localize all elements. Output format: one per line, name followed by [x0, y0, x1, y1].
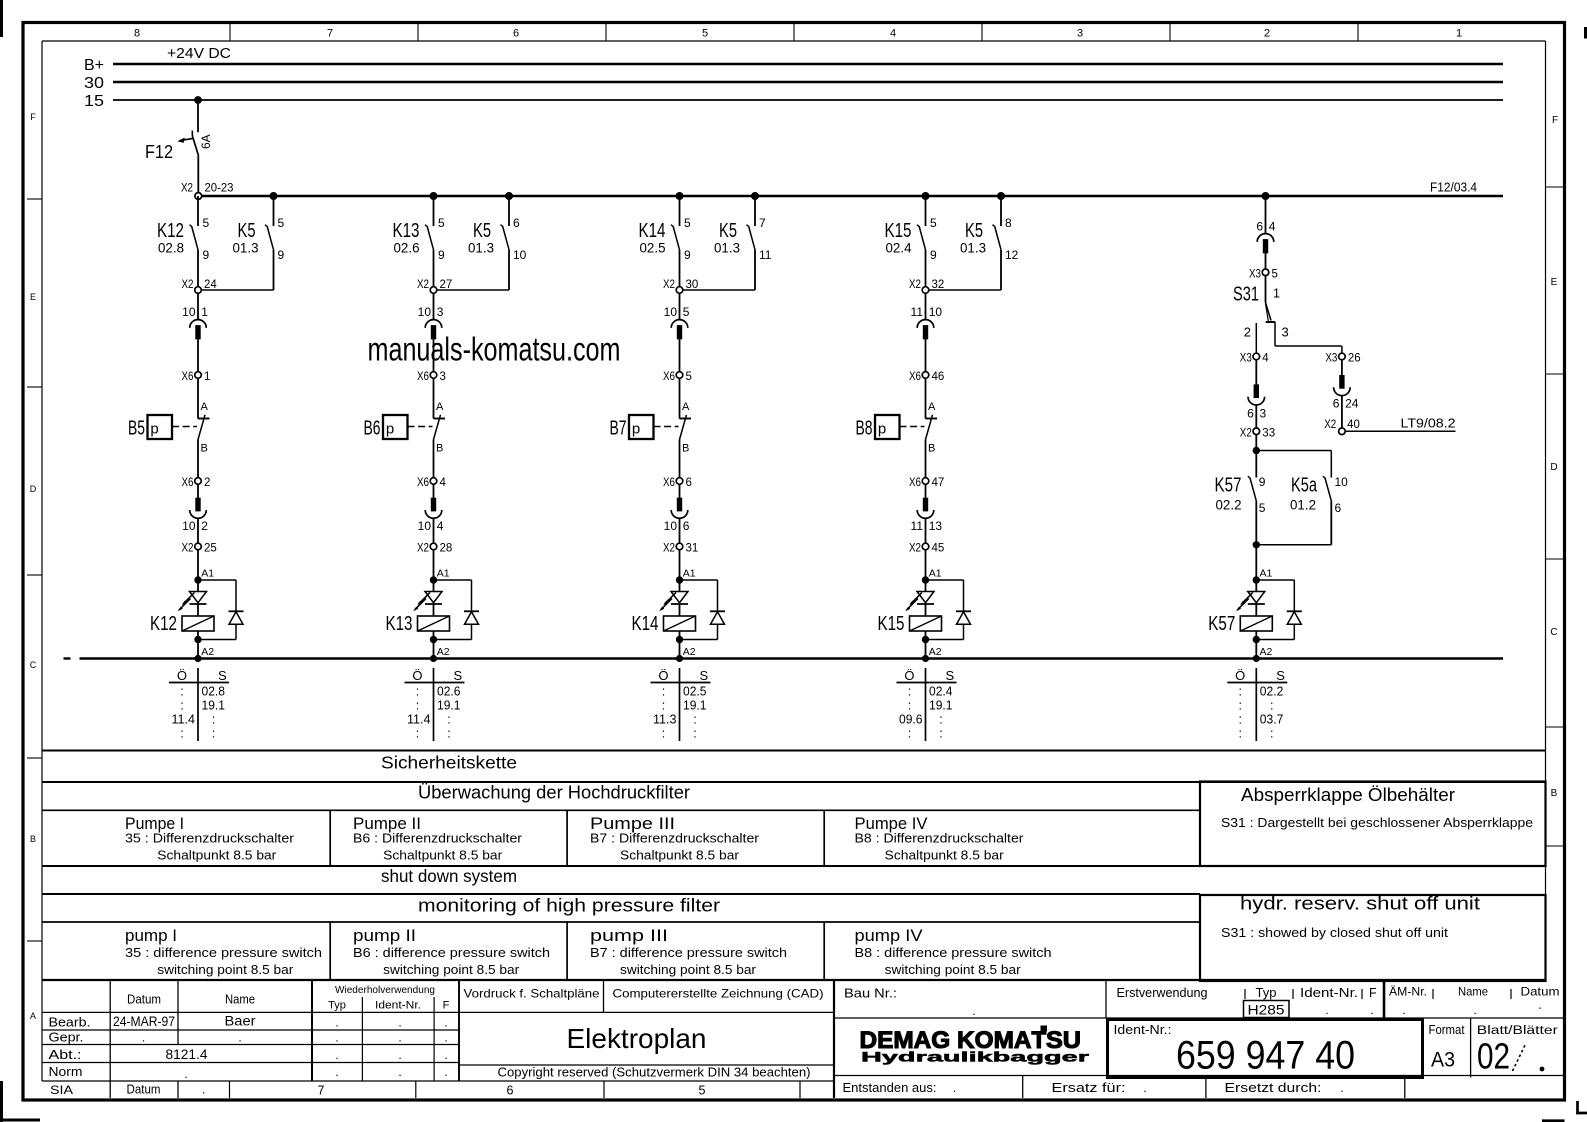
- svg-text:9: 9: [278, 248, 285, 262]
- svg-text:B7 : difference pressure switc: B7 : difference pressure switch: [590, 946, 787, 960]
- row Norm: [49, 1064, 448, 1081]
- svg-text:A: A: [201, 401, 209, 413]
- wire X3:5 to S31: [1265, 275, 1267, 302]
- freewheel diode K57: [1256, 580, 1302, 640]
- connector 10/4: [418, 498, 444, 533]
- svg-text:Bearb.: Bearb.: [49, 1015, 91, 1030]
- svg-text:S: S: [700, 668, 709, 683]
- svg-text:monitoring of high pressure fi: monitoring of high pressure filter: [418, 896, 720, 916]
- svg-text:24: 24: [204, 279, 217, 291]
- svg-text:3: 3: [440, 371, 446, 383]
- title block column line: [1470, 1018, 1472, 1078]
- svg-text:K13: K13: [386, 613, 413, 635]
- contact K5 (7-11): [714, 196, 772, 290]
- wire connector to X6: [197, 339, 199, 372]
- wire X6 to pressure switch: [197, 378, 199, 419]
- terminal X2:45: [909, 543, 944, 555]
- left margin row letters: [30, 112, 37, 1021]
- title block column line: [1022, 1076, 1024, 1099]
- svg-text:6: 6: [1247, 407, 1254, 421]
- terminal X6:2: [182, 477, 211, 489]
- svg-text:8: 8: [134, 28, 140, 40]
- svg-text:C: C: [1550, 627, 1557, 638]
- Wiederholverwendung sub-columns: [362, 997, 434, 1081]
- pressure switch B8: [856, 401, 938, 455]
- wire X6 to connector: [197, 484, 199, 498]
- svg-text:10: 10: [513, 248, 527, 262]
- svg-text:35 : Differenzdruckschalter: 35 : Differenzdruckschalter: [125, 832, 294, 846]
- top margin column numbers: [134, 28, 1462, 40]
- svg-text:ÄM-Nr.: ÄM-Nr.: [1389, 987, 1427, 999]
- wire connector to X6: [925, 339, 927, 372]
- svg-text:switching point 8.5 bar: switching point 8.5 bar: [620, 963, 756, 977]
- svg-text:02.8: 02.8: [202, 685, 226, 699]
- svg-text:27: 27: [440, 279, 453, 291]
- svg-text:02.8: 02.8: [158, 241, 184, 256]
- svg-text:K13: K13: [393, 220, 420, 242]
- svg-text:pump II: pump II: [353, 927, 416, 945]
- svg-text:02.6: 02.6: [394, 241, 420, 256]
- LED indicator K57: [1236, 592, 1265, 612]
- svg-text:K14: K14: [639, 220, 666, 242]
- pressure switch B7: [610, 401, 692, 455]
- svg-text:2: 2: [201, 519, 208, 533]
- svg-text:A2: A2: [201, 646, 214, 658]
- svg-text:Baer: Baer: [225, 1014, 257, 1029]
- svg-text:LT9/08.2: LT9/08.2: [1401, 416, 1456, 430]
- svg-text:01.3: 01.3: [468, 241, 494, 256]
- svg-text:.: .: [444, 1016, 447, 1030]
- wire X2 to A1: [197, 549, 199, 580]
- bus junction (K5 branch 1): [270, 192, 278, 200]
- title block row line: [42, 1062, 459, 1064]
- terminal X2:33: [1240, 427, 1275, 439]
- svg-text:1: 1: [1273, 287, 1280, 301]
- rail 30: [113, 81, 1503, 84]
- svg-text:B7: B7: [610, 418, 627, 440]
- SIA strip dividers: [230, 1081, 801, 1098]
- svg-text:02.5: 02.5: [683, 685, 707, 699]
- corner crop mark bottom-left: [0, 1081, 40, 1122]
- cell Bau Nr.: [844, 987, 976, 1019]
- svg-text:.: .: [398, 1031, 401, 1045]
- svg-text:4: 4: [440, 477, 447, 489]
- svg-text:10: 10: [418, 305, 432, 319]
- band line: [42, 781, 1546, 783]
- svg-text:Datum: Datum: [1521, 985, 1560, 999]
- wire pressure switch to X6: [679, 440, 681, 479]
- svg-text::: :: [662, 699, 665, 713]
- svg-text:Wiederholverwendung: Wiederholverwendung: [335, 984, 435, 996]
- svg-text::: :: [908, 727, 911, 741]
- svg-text:24: 24: [1345, 397, 1359, 411]
- svg-text:31: 31: [686, 543, 699, 555]
- svg-text:F: F: [443, 1000, 450, 1012]
- svg-text:B8: B8: [856, 418, 873, 440]
- freewheel diode K13: [434, 580, 480, 640]
- svg-text:4: 4: [1262, 353, 1269, 365]
- svg-text:p: p: [150, 421, 158, 438]
- svg-text:5: 5: [683, 305, 690, 319]
- svg-text:K12: K12: [150, 613, 177, 635]
- svg-text:.: .: [335, 1065, 338, 1079]
- svg-text:Schaltpunkt 8.5 bar: Schaltpunkt 8.5 bar: [157, 849, 276, 863]
- wire X2 to A1: [925, 549, 927, 580]
- svg-text:40: 40: [1347, 419, 1360, 431]
- panel Absperrklappe Oelbehaelter: [1200, 782, 1546, 867]
- junction A2 K14: [676, 646, 696, 662]
- pump cell dividers (English): [330, 922, 824, 980]
- junction rail15/F12: [194, 96, 202, 104]
- svg-text:15: 15: [84, 93, 104, 110]
- svg-text:10: 10: [929, 305, 943, 319]
- svg-text:A1: A1: [683, 568, 696, 580]
- svg-text::: :: [447, 713, 450, 727]
- terminal X6:1: [182, 371, 211, 383]
- svg-text:6: 6: [513, 216, 520, 230]
- svg-text:S31: S31: [1233, 284, 1259, 306]
- svg-text:S: S: [946, 668, 955, 683]
- svg-text:B: B: [436, 443, 443, 455]
- svg-text:28: 28: [440, 543, 453, 555]
- svg-text:S: S: [1276, 668, 1285, 683]
- svg-text:2: 2: [1264, 28, 1270, 40]
- svg-text:pump IV: pump IV: [855, 927, 923, 945]
- title block column line: [458, 980, 460, 1081]
- svg-text:5: 5: [278, 216, 285, 230]
- svg-text:11: 11: [911, 305, 924, 319]
- bus junction (K5 branch 2): [505, 192, 513, 200]
- row Bearb.: [49, 1014, 448, 1030]
- terminal X2:27: [417, 279, 452, 293]
- svg-text:H285: H285: [1248, 1003, 1285, 1018]
- SIA strip labels: [50, 1083, 706, 1098]
- svg-text:Ersetzt durch:: Ersetzt durch:: [1225, 1080, 1322, 1095]
- title block right section divider: [833, 980, 835, 1098]
- right margin row ticks: [1546, 187, 1564, 846]
- cell Format: [1429, 1023, 1465, 1072]
- cell Pumpe III (German): [590, 815, 759, 863]
- svg-text::: :: [416, 727, 419, 741]
- corner crop mark top-left: [0, 0, 3, 37]
- svg-text:B8 : difference pressure switc: B8 : difference pressure switch: [855, 946, 1052, 960]
- contact cross-reference table K15: [897, 668, 957, 741]
- svg-text:10: 10: [664, 305, 678, 319]
- svg-text:8: 8: [1005, 216, 1012, 230]
- relay coil K13: [386, 613, 450, 635]
- top margin column ticks: [230, 23, 1358, 42]
- svg-text:Name: Name: [1458, 985, 1488, 999]
- wire node to K5a: [1256, 451, 1331, 478]
- bus junction (K14 branch): [676, 192, 684, 200]
- contact K5a (NO, 10-6): [1290, 475, 1348, 545]
- wire to connector: [197, 293, 199, 319]
- svg-text:5: 5: [1272, 268, 1278, 280]
- bus junction (K5 branch 3): [751, 192, 759, 200]
- svg-text:19.1: 19.1: [929, 699, 953, 713]
- band line: [42, 893, 1200, 895]
- bus wire X2 20-23: [201, 195, 1503, 198]
- svg-text:switching point 8.5 bar: switching point 8.5 bar: [885, 963, 1021, 977]
- bus junction (S31 branch): [1262, 192, 1270, 200]
- svg-text:25: 25: [204, 543, 217, 555]
- wire A1 to LED: [1255, 580, 1257, 592]
- wire to connector: [679, 293, 681, 319]
- svg-text:X6: X6: [663, 371, 675, 383]
- terminal X3:26: [1325, 353, 1360, 365]
- svg-text:X6: X6: [417, 477, 429, 489]
- svg-text:10: 10: [1335, 475, 1349, 489]
- svg-text:.: .: [444, 1065, 447, 1079]
- wire F12 to X2: [197, 156, 199, 193]
- svg-text:9: 9: [203, 248, 210, 262]
- wire connector to X2:33: [1255, 405, 1257, 428]
- cell Pumpe IV (German): [855, 815, 1024, 863]
- svg-text:02.6: 02.6: [437, 685, 461, 699]
- band line: [42, 921, 1200, 923]
- svg-text:Abt.:: Abt.:: [49, 1047, 82, 1062]
- connector 10/1: [182, 305, 208, 339]
- svg-text:S: S: [218, 668, 227, 683]
- svg-text:Schaltpunkt 8.5 bar: Schaltpunkt 8.5 bar: [383, 849, 502, 863]
- svg-text:9: 9: [930, 248, 937, 262]
- svg-text:X2: X2: [1240, 427, 1252, 439]
- svg-text:.: .: [335, 1031, 338, 1045]
- svg-text:F: F: [1552, 115, 1558, 126]
- junction A1 K13: [430, 568, 450, 584]
- svg-text:K57: K57: [1208, 613, 1235, 635]
- connector 6/3: [1247, 384, 1266, 420]
- pump cell dividers (German): [330, 810, 824, 866]
- title block column line: [109, 980, 111, 1098]
- svg-text:11.3: 11.3: [653, 713, 677, 727]
- svg-text:1: 1: [1456, 28, 1462, 40]
- svg-text:5: 5: [930, 216, 937, 230]
- svg-text:46: 46: [932, 371, 945, 383]
- title block column line: [1105, 980, 1107, 1018]
- svg-text:.: .: [1370, 1003, 1373, 1017]
- svg-text:6: 6: [686, 477, 692, 489]
- svg-text:4: 4: [437, 519, 444, 533]
- contact K14 (NO, 5-9): [639, 196, 692, 288]
- svg-text:35 : difference pressure switc: 35 : difference pressure switch: [125, 946, 322, 960]
- pressure switch B6: [364, 401, 446, 455]
- svg-text:K5: K5: [965, 220, 983, 242]
- LED indicator K12: [178, 592, 207, 612]
- left margin row ticks: [27, 199, 42, 941]
- wire coil to A2 node: [1253, 631, 1260, 659]
- svg-text:Ö: Ö: [1235, 668, 1245, 683]
- wire X6 to pressure switch: [433, 378, 435, 419]
- svg-text:K15: K15: [878, 613, 905, 635]
- svg-text:7: 7: [759, 216, 766, 230]
- svg-text:01.3: 01.3: [233, 241, 259, 256]
- svg-text:Schaltpunkt 8.5 bar: Schaltpunkt 8.5 bar: [885, 849, 1004, 863]
- wire S31 pin3 to X3:26: [1275, 322, 1342, 354]
- relay coil K14: [632, 613, 696, 635]
- connector 11/13: [911, 498, 943, 533]
- connector 10/3: [418, 305, 444, 339]
- svg-text::: :: [1239, 699, 1242, 713]
- svg-text:D: D: [1550, 462, 1557, 473]
- svg-text::: :: [908, 685, 911, 699]
- cell Ersatz fuer: [1052, 1080, 1147, 1095]
- svg-text:X2: X2: [663, 543, 675, 555]
- svg-text:switching point 8.5 bar: switching point 8.5 bar: [383, 963, 519, 977]
- wire pressure switch to X6: [433, 440, 435, 479]
- freewheel diode K15: [926, 580, 972, 640]
- svg-text:02.5: 02.5: [640, 241, 666, 256]
- svg-text:3: 3: [1282, 325, 1289, 340]
- svg-text:.: .: [972, 1004, 975, 1018]
- svg-text:A: A: [682, 401, 690, 413]
- junction A2 K13: [430, 646, 450, 662]
- svg-text:p: p: [632, 421, 640, 438]
- svg-text:X6: X6: [663, 477, 675, 489]
- band line: [42, 750, 1546, 752]
- svg-text:E: E: [1551, 277, 1558, 288]
- corner crop mark bottom-right: [1542, 1101, 1587, 1121]
- svg-text:Schaltpunkt 8.5 bar: Schaltpunkt 8.5 bar: [620, 849, 739, 863]
- freewheel diode K12: [198, 580, 244, 640]
- svg-text:Datum: Datum: [127, 1083, 161, 1097]
- svg-text:S: S: [454, 668, 463, 683]
- svg-text:B6: B6: [364, 418, 381, 440]
- svg-text:A2: A2: [929, 646, 942, 658]
- svg-text:X6: X6: [182, 371, 194, 383]
- svg-text:X2: X2: [181, 183, 193, 195]
- svg-text::: :: [212, 713, 215, 727]
- wire A1 to LED: [197, 580, 199, 592]
- terminal X6:3: [417, 371, 446, 383]
- svg-text:B6 : Differenzdruckschalter: B6 : Differenzdruckschalter: [353, 832, 522, 846]
- svg-text:X6: X6: [909, 371, 921, 383]
- svg-text::: :: [1270, 727, 1273, 741]
- connector 10/2: [182, 498, 208, 533]
- svg-text:.: .: [238, 1031, 241, 1045]
- svg-text:D: D: [30, 484, 37, 494]
- svg-text:.: .: [444, 1048, 447, 1062]
- wire X6 to connector: [679, 484, 681, 498]
- svg-text:B7 : Differenzdruckschalter: B7 : Differenzdruckschalter: [590, 832, 759, 846]
- svg-text:659 947 40: 659 947 40: [1176, 1034, 1355, 1078]
- wire K5 to X2:32: [928, 289, 1001, 291]
- terminal X3:4: [1240, 353, 1270, 365]
- svg-text:Vordruck f. Schaltpläne: Vordruck f. Schaltpläne: [464, 987, 600, 1001]
- svg-text:pump III: pump III: [590, 927, 668, 945]
- svg-text:Pumpe IV: Pumpe IV: [855, 815, 928, 833]
- terminal X3:5: [1249, 268, 1278, 280]
- svg-text::: :: [939, 727, 942, 741]
- corner crop mark top-right: [1584, 27, 1587, 39]
- svg-text:.: .: [444, 1031, 447, 1045]
- svg-text:.: .: [953, 1081, 956, 1095]
- svg-text:10: 10: [182, 305, 196, 319]
- svg-text:A2: A2: [683, 646, 696, 658]
- svg-text:.: .: [202, 1083, 205, 1097]
- switch S31 (changeover): [1233, 284, 1289, 340]
- svg-text::: :: [1239, 727, 1242, 741]
- svg-text:Ident-Nr.: Ident-Nr.: [1300, 986, 1358, 1000]
- row line Bau Nr.: [834, 1017, 1565, 1019]
- svg-text:10: 10: [664, 519, 678, 533]
- wire K5 to X2:30: [682, 289, 755, 291]
- wire LED to coil: [433, 604, 435, 616]
- svg-text:5: 5: [438, 216, 445, 230]
- terminal X6:4: [417, 477, 447, 489]
- svg-text:9: 9: [684, 248, 691, 262]
- svg-text:.: .: [398, 1048, 401, 1062]
- svg-text:+24V DC: +24V DC: [167, 45, 231, 62]
- terminal X6:46: [909, 371, 944, 383]
- wire LED to coil: [1255, 604, 1257, 616]
- svg-text::: :: [1270, 699, 1273, 713]
- wire X2 to A1: [679, 549, 681, 580]
- svg-text:A1: A1: [201, 568, 214, 580]
- contact K13 (NO, 5-9): [393, 196, 446, 288]
- svg-text:11: 11: [911, 519, 924, 533]
- svg-text:A2: A2: [437, 646, 450, 658]
- junction A1 K57: [1253, 568, 1273, 584]
- svg-text:.: .: [142, 1031, 145, 1045]
- wire X6 to pressure switch: [925, 378, 927, 419]
- wire bus to connector 6/4: [1265, 196, 1267, 233]
- svg-text:F: F: [1369, 986, 1377, 1000]
- svg-text::: :: [416, 685, 419, 699]
- cell Pumpe II (German): [353, 815, 522, 863]
- svg-text:X2: X2: [909, 279, 921, 291]
- wire connector to X6: [433, 339, 435, 372]
- rail B+: [113, 63, 1503, 66]
- contact cross-reference table K14: [651, 668, 711, 741]
- ident number box: [1108, 1020, 1423, 1078]
- svg-text:manuals-komatsu.com: manuals-komatsu.com: [368, 331, 621, 368]
- terminal X2:25: [182, 543, 217, 555]
- svg-text:Ident-Nr.: Ident-Nr.: [375, 1000, 421, 1012]
- svg-text:A: A: [436, 401, 444, 413]
- header Wiederholverwendung: [328, 984, 450, 1012]
- svg-text:K14: K14: [632, 613, 659, 635]
- svg-text:5: 5: [684, 216, 691, 230]
- svg-text:19.1: 19.1: [437, 699, 461, 713]
- cell H285: [1244, 1001, 1290, 1018]
- terminal X2:30: [663, 279, 698, 293]
- row Gepr.: [49, 1030, 448, 1045]
- cell pump III (English): [590, 927, 787, 977]
- svg-text:A: A: [928, 401, 936, 413]
- row Abt.: [49, 1047, 448, 1062]
- svg-text:p: p: [386, 421, 394, 438]
- title block column line: [1205, 1076, 1207, 1099]
- contact K57 (NO, 9-5): [1215, 475, 1266, 545]
- logo DEMAG KOMATSU: [860, 1026, 1091, 1065]
- wire coil to A2 node: [194, 631, 201, 659]
- wire K5 to X2:24: [201, 289, 274, 291]
- terminal X2:28: [417, 543, 452, 555]
- header Datum/Name: [127, 993, 255, 1007]
- contact K12 (NO, 5-9): [157, 196, 210, 288]
- svg-text:X2: X2: [1324, 419, 1336, 431]
- cell pump I (English): [125, 927, 322, 977]
- wire coil to A2 node: [430, 631, 437, 659]
- wire node to A1: [1255, 545, 1257, 580]
- svg-text:A3: A3: [1431, 1049, 1455, 1072]
- svg-text:X2: X2: [182, 279, 194, 291]
- svg-text:Pumpe I: Pumpe I: [125, 815, 184, 833]
- svg-text:.: .: [398, 1016, 401, 1030]
- svg-text:02.2: 02.2: [1260, 685, 1284, 699]
- wire X2:33 to node: [1253, 434, 1260, 477]
